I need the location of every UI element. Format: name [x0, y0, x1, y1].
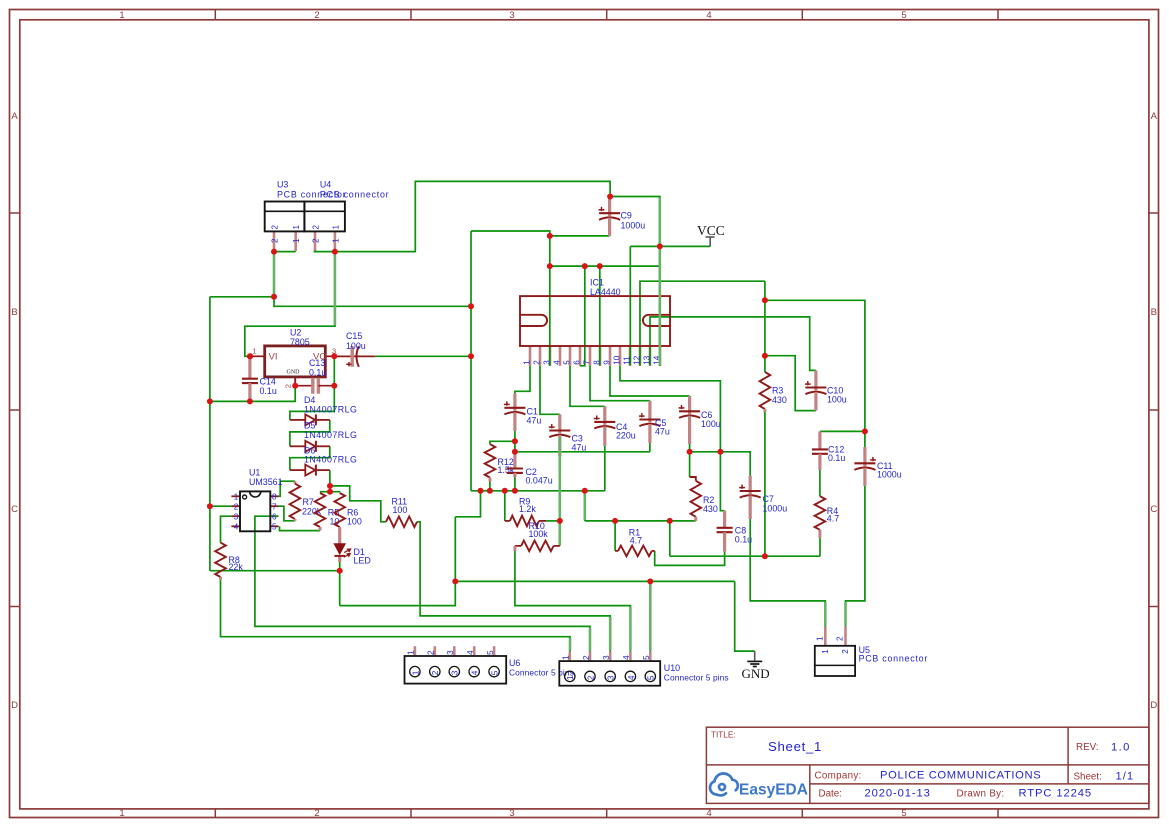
svg-text:C9: C9 [621, 211, 632, 221]
wire node to R11 left [330, 486, 386, 522]
wire row A [670, 555, 820, 557]
capacitor C12 [818, 431, 821, 449]
wire to C9 bottom [550, 235, 610, 237]
svg-text:2: 2 [426, 650, 436, 655]
svg-text:100u: 100u [346, 341, 366, 351]
svg-text:4: 4 [465, 650, 475, 655]
wire U2 VO node down to C13 [333, 356, 335, 385]
svg-text:PCB connector: PCB connector [320, 189, 389, 199]
wire riser x471 up [470, 231, 472, 306]
svg-text:1: 1 [821, 649, 830, 654]
svg-text:4: 4 [626, 675, 636, 680]
svg-text:2: 2 [271, 238, 280, 243]
resistor R10 zigzag [521, 541, 554, 552]
svg-text:U3: U3 [277, 180, 288, 190]
wire R10 left to U10 pin4 [515, 551, 631, 652]
svg-text:6: 6 [272, 513, 277, 522]
svg-text:UM3561: UM3561 [249, 477, 283, 487]
svg-text:D: D [11, 700, 18, 711]
svg-text:4: 4 [706, 808, 711, 819]
svg-text:0.1u: 0.1u [828, 453, 845, 463]
wire C6 row to C7 top [690, 452, 751, 476]
svg-text:22k: 22k [229, 562, 244, 572]
diode D6 [290, 469, 305, 471]
svg-text:4.7: 4.7 [630, 535, 642, 545]
svg-text:1: 1 [234, 493, 239, 502]
svg-text:1/1: 1/1 [1116, 771, 1135, 783]
resistor R7 [293, 481, 296, 483]
capacitor C13 [295, 385, 313, 387]
wire IC1 pin13 to C10 top [650, 317, 816, 371]
svg-text:C13: C13 [309, 358, 325, 368]
wire ground bus [471, 490, 605, 492]
svg-text:Sheet:: Sheet: [1074, 772, 1102, 783]
svg-text:2: 2 [581, 655, 591, 660]
wire VCC rail [630, 245, 710, 247]
svg-text:2: 2 [284, 384, 293, 388]
wire U1 pin2 to left vertical [210, 505, 232, 507]
svg-text:POLICE COMMUNICATIONS: POLICE COMMUNICATIONS [880, 769, 1041, 781]
svg-text:0.1u: 0.1u [309, 368, 326, 378]
svg-text:RTPC 12245: RTPC 12245 [1019, 787, 1092, 799]
wire IC1 pin10 to C8 top [620, 366, 725, 511]
svg-text:D: D [1150, 700, 1157, 711]
svg-text:4: 4 [234, 523, 239, 532]
svg-text:1.2k: 1.2k [519, 504, 536, 514]
svg-text:B: B [1151, 307, 1157, 318]
capacitor C10 [814, 370, 817, 390]
svg-text:1: 1 [119, 10, 124, 21]
wire C1-C2 node [514, 441, 516, 452]
svg-text:1: 1 [292, 225, 301, 230]
svg-text:VI: VI [269, 352, 278, 363]
wire gnd row 581 [455, 580, 734, 582]
wire U1 pin8 to R7 top [279, 481, 295, 496]
wire R5/R6 top row [320, 491, 340, 493]
svg-text:LA4440: LA4440 [590, 287, 621, 297]
wire D6 cathode down [329, 470, 331, 492]
svg-text:Sheet_1: Sheet_1 [768, 739, 822, 754]
svg-text:PCB connector: PCB connector [859, 654, 928, 664]
capacitor C14 [248, 356, 251, 378]
svg-text:4: 4 [470, 670, 480, 675]
svg-text:U4: U4 [320, 180, 331, 190]
wire R1 left riser [614, 521, 616, 551]
R2 top jog [690, 477, 696, 481]
wire R9 left riser [504, 491, 506, 521]
wire down to row 266 [549, 236, 551, 266]
capacitor C8 [723, 511, 726, 528]
capacitor C1 [513, 394, 516, 411]
svg-text:1: 1 [331, 238, 340, 243]
wire C12 bottom to R4 top [819, 470, 821, 496]
svg-text:1: 1 [816, 636, 825, 641]
svg-text:1N4007RLG: 1N4007RLG [304, 405, 357, 415]
wire IC1 pin5 to C4 top [570, 366, 605, 407]
svg-text:1: 1 [561, 655, 571, 660]
resistor R9 [505, 520, 510, 522]
svg-text:9: 9 [602, 360, 611, 365]
resistor R3 zigzag [760, 372, 771, 409]
svg-text:0.1u: 0.1u [735, 535, 752, 545]
svg-text:C15: C15 [346, 331, 362, 341]
svg-text:U2: U2 [290, 328, 301, 338]
capacitor C5 [648, 401, 651, 423]
svg-text:430: 430 [703, 504, 718, 514]
wire node to C11 top [864, 431, 866, 447]
wire row266 to IC1 pin8 [599, 266, 601, 366]
svg-text:2: 2 [312, 238, 321, 243]
wire R11 right to U10 pin3 [417, 522, 610, 652]
svg-text:5: 5 [485, 650, 495, 655]
wire R4 bottom [819, 538, 821, 556]
svg-text:5: 5 [562, 360, 571, 365]
LED D1 [334, 544, 345, 554]
wire C6 bottom [689, 444, 691, 452]
svg-text:GND: GND [742, 666, 770, 681]
svg-text:8: 8 [592, 360, 601, 365]
svg-text:GND: GND [287, 369, 301, 375]
op-amp IC1 LA4440 body [520, 296, 670, 346]
svg-text:100k: 100k [529, 529, 549, 539]
wire U3 pins down and right [274, 252, 471, 307]
connector U3 body [265, 202, 305, 232]
wire U1 pin6 to U10 pin2 [255, 516, 590, 651]
title block [706, 727, 1149, 803]
svg-text:1000u: 1000u [877, 469, 902, 479]
svg-text:1: 1 [406, 650, 416, 655]
svg-text:1000u: 1000u [763, 503, 788, 513]
svg-text:2: 2 [532, 360, 541, 365]
svg-text:2020-01-13: 2020-01-13 [865, 787, 931, 799]
U4 pin stubs [314, 231, 317, 251]
wire C1 bottom [514, 431, 516, 441]
svg-text:B: B [11, 307, 17, 318]
capacitor C3 [558, 414, 561, 433]
svg-text:LED: LED [354, 555, 371, 565]
wire D5 cathode to D6 anode [290, 446, 330, 470]
svg-text:5: 5 [901, 808, 906, 819]
svg-text:2: 2 [836, 636, 845, 641]
svg-text:3: 3 [509, 808, 514, 819]
connector U5 body [815, 646, 855, 676]
svg-text:A: A [1151, 111, 1158, 122]
wire R5 bottom to U1 pin5 [280, 526, 321, 530]
svg-text:5: 5 [272, 523, 277, 532]
svg-text:10: 10 [612, 355, 621, 365]
diode D4 [290, 419, 305, 421]
svg-text:2: 2 [314, 808, 319, 819]
svg-text:1: 1 [410, 670, 420, 675]
wire row266 to IC1 pin3 [549, 266, 551, 366]
svg-text:0.1u: 0.1u [260, 386, 277, 396]
wire R9 right to node [546, 520, 560, 522]
connector U4 body [304, 202, 345, 232]
svg-text:3: 3 [509, 10, 514, 21]
wire IC1 pin7 to C5 top [590, 366, 650, 401]
wire branch left at node [210, 296, 274, 298]
resistor R1 zigzag [618, 546, 652, 557]
svg-text:3: 3 [234, 513, 239, 522]
EasyEDA logo [710, 773, 738, 795]
svg-text:1: 1 [331, 225, 340, 230]
wire bus riser to row521 [584, 491, 586, 521]
svg-text:8: 8 [272, 493, 277, 502]
svg-text:C: C [1150, 504, 1157, 515]
svg-text:7: 7 [582, 360, 591, 365]
resistor R6 zigzag [334, 493, 345, 527]
connector U10 body [559, 661, 660, 686]
svg-text:100: 100 [393, 505, 408, 515]
svg-text:1: 1 [119, 808, 124, 819]
wire x471 down to ground bus [470, 306, 472, 491]
wire bus to C4 bottom [604, 446, 606, 491]
svg-text:3: 3 [606, 675, 616, 680]
wire row 521 [585, 520, 696, 522]
svg-text:1: 1 [292, 238, 301, 243]
resistor R1 [615, 550, 618, 552]
resistor R9 zigzag [510, 516, 539, 527]
svg-text:VCC: VCC [697, 223, 725, 238]
svg-text:1.0: 1.0 [1111, 742, 1131, 754]
wire row 451 to C5 bottom [515, 451, 650, 453]
U10 pin stubs [568, 652, 571, 662]
resistor R12 zigzag [485, 444, 496, 477]
svg-text:1: 1 [252, 346, 256, 355]
svg-text:1: 1 [565, 675, 575, 680]
wire IC1 pin1 to C1 top [515, 366, 530, 394]
wire R12 bottom [489, 482, 491, 491]
resistor R5 zigzag [315, 493, 326, 527]
svg-text:2: 2 [430, 670, 440, 675]
wire R7 bottom to U1 pin7 [279, 506, 295, 521]
svg-text:11: 11 [622, 356, 631, 365]
wire VCC to IC1 pin 11 [629, 246, 631, 365]
diode D6 body [305, 465, 315, 476]
svg-text:2: 2 [314, 10, 319, 21]
connector U6 body [405, 656, 507, 684]
wire U10 pin5 riser [649, 581, 651, 651]
wire U4 pins to top rail to C9 [314, 181, 610, 251]
capacitor C15 [335, 355, 375, 357]
svg-text:12: 12 [632, 355, 641, 365]
wire R2 top [689, 452, 691, 477]
svg-text:3: 3 [601, 655, 611, 660]
svg-text:100u: 100u [827, 395, 847, 405]
diode D4 body [305, 414, 315, 425]
svg-text:100: 100 [347, 517, 362, 527]
capacitor C9 [608, 197, 611, 217]
wire row 570 [210, 570, 340, 572]
resistor R8 zigzag [215, 543, 226, 577]
wire branch to C10 bottom [765, 356, 816, 411]
wire vertical to IC1 pin 14 [659, 246, 661, 365]
svg-text:4: 4 [621, 655, 631, 660]
resistor R11 zigzag [386, 517, 417, 528]
diode D5 [290, 445, 305, 447]
wire C11 bottom to U5 pin2 [846, 486, 865, 627]
resistor R2 zigzag [691, 481, 702, 517]
svg-text:5: 5 [901, 10, 906, 21]
wire C12 top to node [820, 430, 865, 432]
wire LED cathode down [339, 562, 341, 606]
wire U4 pin1 to U2 VI [245, 252, 335, 357]
svg-text:1N4007RLG: 1N4007RLG [304, 455, 357, 465]
svg-text:4.7: 4.7 [827, 514, 839, 524]
capacitor C11 [863, 447, 866, 466]
wire gnd row 401 to U2 GND pin [210, 386, 295, 402]
wire node to R12 top [490, 441, 515, 444]
svg-text:3: 3 [450, 670, 460, 675]
wire D4 cathode to D5 anode [290, 420, 330, 446]
svg-text:1: 1 [522, 360, 531, 365]
resistor R7 zigzag [290, 484, 301, 519]
GND symbol [754, 651, 756, 660]
wire gnd riser down-left [340, 517, 456, 606]
svg-text:Date:: Date: [819, 788, 842, 799]
resistor R10 [515, 545, 521, 547]
wire C3 bottom to R10 right [559, 456, 561, 546]
wire long left vertical [209, 297, 211, 571]
svg-text:5: 5 [490, 670, 500, 675]
regulator U2 7805 body [265, 346, 326, 377]
light green pin-line wires [273, 252, 276, 296]
wire C15 right to x471 [375, 355, 471, 357]
wire R1 right to C8 bottom [655, 551, 725, 566]
U5 pin stubs [824, 627, 827, 646]
svg-text:5: 5 [641, 655, 651, 660]
svg-text:6: 6 [572, 360, 581, 365]
wire branch to x865 vertical [765, 300, 865, 431]
wire C9 top to VCC rail [610, 197, 660, 247]
U1 pin stubs [231, 495, 240, 497]
svg-text:4: 4 [706, 10, 711, 21]
svg-text:47u: 47u [527, 415, 542, 425]
svg-text:100u: 100u [701, 419, 721, 429]
svg-text:IC1: IC1 [590, 277, 604, 287]
wire IC1 pin9 to C6 top [610, 366, 690, 396]
wire C7 bottom to U5 pin1 [750, 519, 825, 627]
wire row266 to IC1 pin6 [580, 266, 585, 366]
svg-text:13: 13 [642, 355, 651, 365]
svg-text:2: 2 [585, 675, 595, 680]
svg-text:3: 3 [542, 360, 551, 365]
svg-text:3: 3 [445, 650, 455, 655]
svg-text:1000u: 1000u [621, 220, 646, 230]
capacitor C7 [749, 476, 752, 494]
U3 pin stubs [273, 231, 276, 251]
wire bus to gnd riser [455, 491, 480, 517]
capacitor C4 [603, 406, 606, 425]
wire R3 bottom long [764, 412, 766, 556]
svg-text:TITLE:: TITLE: [711, 731, 736, 740]
svg-text:A: A [11, 111, 18, 122]
svg-text:7805: 7805 [290, 337, 310, 347]
svg-text:C: C [11, 504, 18, 515]
LED D1 leads [338, 529, 341, 548]
svg-text:7: 7 [272, 503, 277, 512]
svg-text:430: 430 [772, 395, 787, 405]
IC1 pin stubs 1-14 [529, 346, 532, 366]
wire U3 pin bridge [274, 251, 296, 253]
svg-text:2: 2 [841, 649, 850, 654]
wire R8 bottom to U10 pin1 [221, 580, 571, 652]
svg-text:Drawn By:: Drawn By: [957, 789, 1005, 800]
diode D5 body [305, 441, 315, 452]
wire C2 bottom [514, 477, 516, 491]
U2 pin stubs [250, 355, 265, 357]
svg-text:2: 2 [271, 225, 280, 230]
wire IC1 pin2 to C3 top [540, 366, 560, 415]
wire C5 bottom [649, 443, 651, 452]
svg-text:EasyEDA: EasyEDA [739, 782, 808, 799]
wire top jog to C9 bottom node [471, 231, 550, 236]
capacitor C2 [513, 452, 516, 469]
junction dots [271, 249, 277, 255]
svg-text:2: 2 [312, 225, 321, 230]
svg-text:1N4007RLG: 1N4007RLG [304, 430, 357, 440]
svg-text:Connector 5 pins: Connector 5 pins [664, 672, 729, 682]
IC U1 UM3561 body [240, 491, 270, 531]
svg-text:4: 4 [552, 360, 561, 365]
wire row521 to rowA riser [669, 521, 671, 556]
svg-text:47u: 47u [572, 443, 587, 453]
svg-text:5: 5 [646, 675, 656, 680]
U6 pin stubs [414, 646, 417, 656]
wire to GND symbol [735, 581, 755, 651]
resistor R4 zigzag [815, 496, 826, 530]
svg-text:REV:: REV: [1076, 742, 1099, 753]
svg-text:0.047u: 0.047u [526, 475, 553, 485]
wire C13 node to D4 anode [290, 386, 334, 420]
svg-text:Company:: Company: [815, 770, 862, 781]
wire IC1 pin12 up-right [640, 281, 765, 366]
svg-text:220u: 220u [616, 431, 636, 441]
wire row 266 [550, 265, 660, 267]
capacitor C6 [688, 396, 691, 414]
svg-text:47u: 47u [655, 427, 670, 437]
wire U1 pin3 to R8 top [221, 516, 232, 542]
svg-text:2: 2 [234, 503, 239, 512]
wire x765 down to R3 [764, 281, 766, 372]
